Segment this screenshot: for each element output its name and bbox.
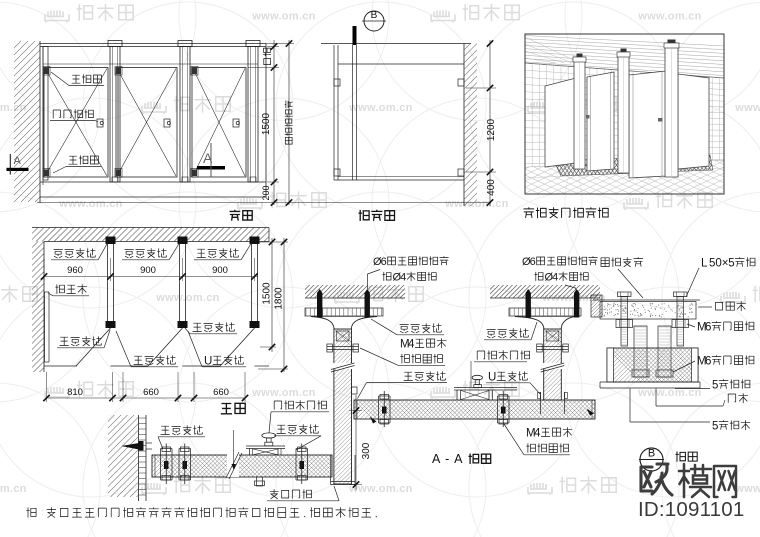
svg-text:A: A	[14, 155, 22, 167]
svg-text:www.om.cn: www.om.cn	[251, 11, 315, 23]
svg-text:www.om.cn: www.om.cn	[0, 102, 27, 114]
svg-text:U: U	[204, 355, 212, 367]
svg-text:www.om.cn: www.om.cn	[155, 292, 219, 304]
svg-text:400: 400	[486, 179, 497, 196]
svg-text:960: 960	[67, 265, 83, 276]
svg-text:6: 6	[381, 256, 387, 268]
svg-text:B: B	[371, 10, 378, 21]
svg-text:200: 200	[261, 185, 271, 200]
svg-text:6: 6	[705, 321, 711, 333]
svg-text:810: 810	[67, 387, 83, 398]
svg-text:www.om.cn: www.om.cn	[348, 102, 412, 114]
svg-text:5: 5	[712, 420, 718, 432]
svg-text:www.om.cn: www.om.cn	[0, 483, 27, 495]
svg-text:4: 4	[552, 272, 558, 284]
svg-text:300: 300	[361, 442, 372, 459]
svg-text:U: U	[488, 371, 496, 383]
svg-text:www.om.cn: www.om.cn	[637, 11, 701, 23]
svg-text:900: 900	[212, 265, 228, 276]
svg-text:www.om.cn: www.om.cn	[58, 198, 122, 210]
svg-text:6: 6	[705, 355, 711, 367]
svg-text:1500: 1500	[261, 112, 272, 135]
svg-text:A - A: A - A	[432, 452, 463, 466]
svg-text:660: 660	[213, 387, 229, 398]
svg-text:L: L	[701, 257, 708, 269]
svg-text:4: 4	[534, 427, 541, 439]
svg-text:B: B	[648, 448, 655, 460]
svg-text:1800: 1800	[274, 287, 285, 310]
svg-text:1200: 1200	[486, 118, 497, 141]
svg-text:4: 4	[400, 272, 406, 284]
svg-text:5: 5	[728, 257, 734, 269]
svg-text:1500: 1500	[262, 282, 273, 305]
svg-text:www.om.cn: www.om.cn	[348, 483, 412, 495]
svg-text:www.om.cn: www.om.cn	[734, 483, 760, 495]
svg-text:900: 900	[140, 265, 156, 276]
svg-text:660: 660	[143, 387, 159, 398]
svg-text:www.om.cn: www.om.cn	[734, 102, 760, 114]
svg-text:6: 6	[530, 256, 536, 268]
svg-text:5: 5	[712, 379, 718, 391]
svg-text:4: 4	[408, 338, 415, 350]
svg-text:ID:1091101: ID:1091101	[638, 498, 744, 521]
svg-text:www.om.cn: www.om.cn	[251, 387, 315, 399]
svg-text:A: A	[203, 150, 213, 166]
